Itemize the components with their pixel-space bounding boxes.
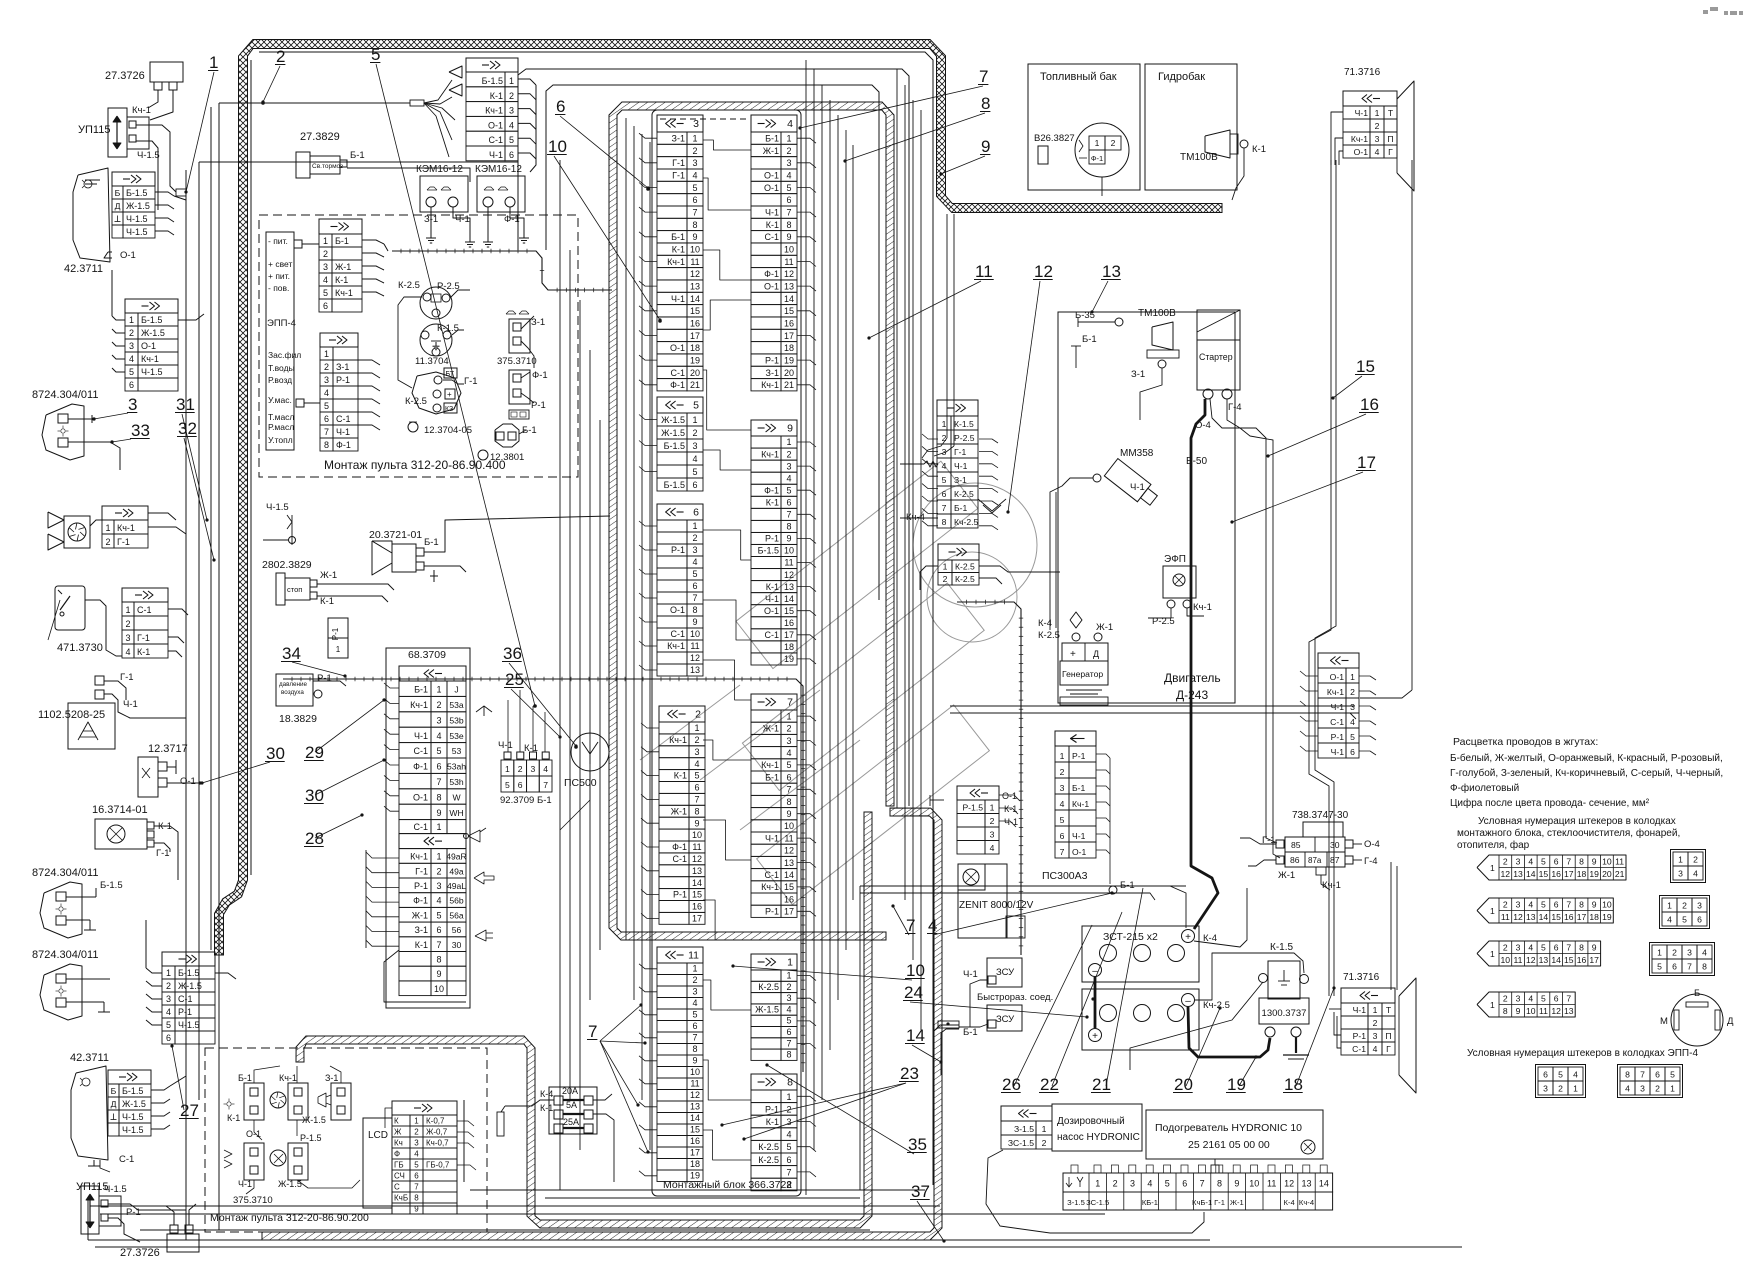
svg-text:К-1: К-1 [766, 1117, 779, 1127]
svg-text:Г: Г [1388, 147, 1393, 157]
svg-text:1: 1 [209, 53, 218, 72]
svg-text:Б-1: Б-1 [1072, 783, 1086, 793]
svg-text:6: 6 [436, 925, 441, 935]
svg-text:–: – [1185, 996, 1191, 1007]
svg-text:4: 4 [692, 557, 697, 567]
svg-text:6: 6 [509, 150, 514, 160]
svg-text:Ф-1: Ф-1 [336, 440, 351, 450]
svg-text:2: 2 [692, 975, 697, 985]
svg-text:6: 6 [1543, 1070, 1548, 1080]
svg-text:Ч-1.5: Ч-1.5 [266, 502, 289, 513]
svg-text:4: 4 [928, 916, 937, 935]
svg-text:8: 8 [436, 792, 441, 802]
svg-text:10: 10 [434, 984, 444, 994]
svg-text:3: 3 [531, 764, 536, 774]
svg-text:23: 23 [900, 1064, 919, 1083]
svg-text:Ф-1: Ф-1 [413, 896, 428, 906]
svg-text:Ж-1: Ж-1 [320, 570, 337, 581]
svg-text:насос HYDRONIC: насос HYDRONIC [1057, 1132, 1140, 1143]
svg-text:Р.масл: Р.масл [268, 422, 294, 432]
svg-text:10: 10 [690, 245, 700, 255]
svg-text:18: 18 [784, 642, 794, 652]
svg-text:10: 10 [1602, 856, 1612, 866]
svg-text:Ф-1: Ф-1 [532, 370, 548, 381]
svg-text:3: 3 [786, 736, 791, 746]
svg-text:3: 3 [786, 1117, 791, 1127]
svg-text:+: + [1092, 1031, 1098, 1042]
svg-text:КЭМ16-12: КЭМ16-12 [475, 164, 522, 175]
svg-text:Г-4: Г-4 [1228, 402, 1242, 413]
svg-text:6: 6 [786, 1155, 791, 1165]
svg-text:Б-1: Б-1 [954, 503, 968, 513]
svg-text:О-1: О-1 [764, 282, 779, 292]
svg-text:6: 6 [414, 1172, 419, 1181]
svg-text:УП115: УП115 [78, 124, 110, 136]
svg-text:2: 2 [414, 1128, 419, 1137]
svg-text:7: 7 [1687, 962, 1692, 972]
svg-text:2: 2 [1503, 942, 1508, 952]
svg-text:2: 2 [276, 47, 285, 66]
svg-text:ZENIT 8000/12V: ZENIT 8000/12V [959, 900, 1034, 911]
svg-text:49aL: 49aL [447, 881, 466, 891]
svg-text:7: 7 [1566, 942, 1571, 952]
svg-text:5: 5 [509, 135, 514, 145]
svg-text:1: 1 [125, 605, 130, 615]
svg-text:11: 11 [1539, 1006, 1548, 1016]
svg-text:3: 3 [1516, 993, 1521, 1003]
svg-text:42.3711: 42.3711 [64, 263, 103, 275]
svg-text:1: 1 [414, 1117, 419, 1126]
svg-text:5: 5 [1682, 915, 1687, 925]
svg-text:К-1: К-1 [227, 1113, 240, 1123]
svg-text:Ф-1: Ф-1 [504, 214, 520, 225]
svg-text:27.3829: 27.3829 [300, 131, 340, 143]
svg-text:Кч-1: Кч-1 [117, 523, 135, 533]
svg-text:1: 1 [942, 419, 947, 429]
svg-text:ГБ: ГБ [394, 1161, 404, 1170]
svg-text:8: 8 [1702, 962, 1707, 972]
svg-text:1: 1 [694, 723, 699, 733]
svg-text:1: 1 [692, 415, 697, 425]
svg-text:Г-голубой, З-зеленый, Кч-корич: Г-голубой, З-зеленый, Кч-коричневый, С-с… [1450, 767, 1723, 779]
svg-text:К-1: К-1 [540, 1103, 553, 1113]
svg-text:К-1: К-1 [1252, 144, 1266, 155]
svg-text:Ф-1: Ф-1 [672, 842, 687, 852]
svg-text:11: 11 [692, 842, 701, 852]
svg-text:2: 2 [1503, 899, 1508, 909]
svg-text:25А: 25А [563, 1117, 579, 1127]
svg-text:6: 6 [556, 97, 565, 116]
svg-text:5: 5 [1350, 732, 1355, 742]
svg-text:4: 4 [1528, 899, 1533, 909]
svg-text:Ж-1.5: Ж-1.5 [661, 415, 685, 425]
svg-text:Б-50: Б-50 [1186, 456, 1207, 467]
svg-text:2: 2 [990, 816, 995, 826]
svg-text:12: 12 [1284, 1179, 1294, 1189]
svg-text:5: 5 [693, 400, 699, 412]
svg-text:738.3747-30: 738.3747-30 [1292, 810, 1349, 821]
svg-text:Кч-1: Кч-1 [669, 735, 687, 745]
svg-text:16.3714-01: 16.3714-01 [92, 804, 148, 816]
svg-text:ПС500: ПС500 [564, 777, 597, 789]
svg-text:5: 5 [505, 780, 510, 790]
svg-text:ЗСУ: ЗСУ [996, 1014, 1015, 1025]
svg-text:2: 2 [695, 709, 701, 721]
svg-text:Кч-1: Кч-1 [279, 1073, 297, 1083]
svg-text:4: 4 [1528, 856, 1533, 866]
svg-text:13: 13 [1513, 869, 1523, 879]
svg-text:6: 6 [1350, 747, 1355, 757]
svg-text:ЗСУ: ЗСУ [996, 967, 1015, 978]
svg-text:13: 13 [784, 858, 794, 868]
svg-text:17: 17 [1577, 912, 1587, 922]
svg-text:4: 4 [1667, 915, 1672, 925]
svg-text:О-1: О-1 [764, 183, 779, 193]
svg-text:2: 2 [942, 433, 947, 443]
svg-text:5: 5 [1670, 1070, 1675, 1080]
svg-text:Монтажный блок 366.3722: Монтажный блок 366.3722 [663, 1179, 792, 1191]
svg-text:Т: Т [1388, 108, 1394, 118]
svg-text:42.3711: 42.3711 [70, 1052, 109, 1064]
svg-text:Г-1: Г-1 [672, 158, 685, 168]
svg-text:30: 30 [1330, 840, 1340, 850]
svg-text:12.3717: 12.3717 [148, 743, 188, 755]
svg-text:9: 9 [692, 617, 697, 627]
svg-text:33: 33 [131, 421, 150, 440]
svg-text:8: 8 [1625, 1070, 1630, 1080]
svg-text:Ж-0,7: Ж-0,7 [426, 1128, 448, 1137]
svg-text:О-1: О-1 [246, 1129, 261, 1139]
svg-text:6: 6 [942, 489, 947, 499]
svg-text:27.3726: 27.3726 [120, 1247, 160, 1256]
svg-text:18: 18 [784, 343, 794, 353]
svg-text:2802.3829: 2802.3829 [262, 559, 312, 571]
svg-text:Б-1: Б-1 [1120, 880, 1135, 891]
svg-text:В26.3827: В26.3827 [1034, 133, 1075, 144]
svg-text:+: + [447, 390, 452, 399]
svg-text:9: 9 [786, 534, 791, 544]
svg-text:36: 36 [503, 644, 522, 663]
svg-text:53b: 53b [449, 715, 464, 725]
svg-text:3: 3 [1543, 1084, 1548, 1094]
svg-text:4: 4 [414, 1150, 419, 1159]
svg-text:92.3709 Б-1: 92.3709 Б-1 [500, 795, 552, 806]
svg-text:6: 6 [786, 195, 791, 205]
svg-text:Г: Г [1386, 1044, 1391, 1054]
svg-text:Гидробак: Гидробак [1158, 71, 1205, 83]
svg-text:7: 7 [588, 1022, 597, 1041]
svg-text:5: 5 [1060, 815, 1065, 825]
svg-text:5: 5 [1541, 856, 1546, 866]
svg-text:5: 5 [942, 475, 947, 485]
svg-text:С-1: С-1 [764, 870, 779, 880]
svg-text:К-1: К-1 [335, 275, 348, 285]
svg-text:Б-1.5: Б-1.5 [482, 76, 503, 86]
svg-text:19: 19 [1589, 869, 1599, 879]
svg-text:87а: 87а [1308, 856, 1322, 865]
svg-text:1: 1 [1667, 901, 1672, 911]
svg-text:2: 2 [692, 533, 697, 543]
svg-text:Р-1: Р-1 [331, 627, 340, 640]
svg-text:7: 7 [1566, 899, 1571, 909]
svg-text:18.3829: 18.3829 [279, 713, 317, 725]
svg-text:К-2.5: К-2.5 [398, 280, 420, 291]
svg-text:Дозировочный: Дозировочный [1057, 1116, 1125, 1127]
svg-text:9: 9 [692, 1056, 697, 1066]
svg-text:1: 1 [105, 523, 110, 533]
svg-text:15: 15 [1564, 955, 1574, 965]
svg-text:3: 3 [1516, 899, 1521, 909]
svg-text:Ж-1: Ж-1 [763, 146, 779, 156]
svg-text:Р-1: Р-1 [1353, 1031, 1367, 1041]
svg-text:Ч-1: Ч-1 [414, 731, 428, 741]
svg-text:Стартер: Стартер [1199, 352, 1233, 362]
svg-text:10: 10 [548, 137, 567, 156]
svg-text:20: 20 [784, 368, 794, 378]
svg-text:6: 6 [692, 195, 697, 205]
svg-text:1: 1 [1490, 1000, 1495, 1010]
svg-text:6: 6 [436, 762, 441, 772]
svg-text:Расцветка проводов в жгутах:: Расцветка проводов в жгутах: [1453, 736, 1598, 748]
svg-text:Кч: Кч [394, 1139, 403, 1148]
svg-text:6: 6 [1554, 993, 1559, 1003]
svg-text:13: 13 [1526, 912, 1536, 922]
svg-text:4: 4 [990, 843, 995, 853]
svg-text:Б: Б [115, 188, 121, 198]
svg-text:11: 11 [784, 833, 793, 843]
svg-text:2: 2 [436, 866, 441, 876]
svg-text:Р-1: Р-1 [414, 881, 428, 891]
svg-text:30: 30 [266, 744, 285, 763]
svg-text:19: 19 [1227, 1075, 1246, 1094]
svg-text:К-1: К-1 [1004, 804, 1017, 814]
svg-text:20А: 20А [562, 1086, 578, 1096]
svg-text:3: 3 [786, 993, 791, 1003]
svg-text:8724.304/011: 8724.304/011 [32, 389, 98, 401]
svg-text:8: 8 [786, 797, 791, 807]
svg-text:Б: Б [1694, 988, 1700, 999]
svg-text:10: 10 [784, 245, 794, 255]
svg-text:6: 6 [1554, 856, 1559, 866]
svg-text:Б-белый, Ж-желтый, О-оранжевый: Б-белый, Ж-желтый, О-оранжевый, К-красны… [1450, 752, 1723, 764]
svg-text:КЗ: КЗ [445, 406, 453, 413]
svg-text:2: 2 [1655, 1084, 1660, 1094]
svg-text:6: 6 [786, 772, 791, 782]
svg-text:1: 1 [436, 852, 441, 862]
svg-text:6: 6 [692, 1021, 697, 1031]
svg-text:К-2.5: К-2.5 [758, 1155, 779, 1165]
svg-text:Генератор: Генератор [1062, 669, 1103, 679]
svg-text:4: 4 [1060, 799, 1065, 809]
svg-text:6: 6 [693, 507, 699, 519]
svg-text:9: 9 [1592, 856, 1597, 866]
svg-text:3: 3 [1130, 1179, 1135, 1189]
svg-text:1: 1 [1490, 906, 1495, 916]
svg-text:56b: 56b [449, 896, 464, 906]
svg-text:2: 2 [509, 91, 514, 101]
svg-text:+: + [1070, 649, 1076, 660]
svg-text:5: 5 [1165, 1179, 1170, 1189]
svg-text:24: 24 [904, 983, 923, 1002]
svg-text:4: 4 [125, 647, 130, 657]
svg-text:6: 6 [692, 480, 697, 490]
svg-text:14: 14 [1526, 869, 1536, 879]
svg-text:Кч-1: Кч-1 [485, 106, 503, 116]
svg-text:13: 13 [1301, 1179, 1311, 1189]
svg-text:8724.304/011: 8724.304/011 [32, 949, 98, 961]
svg-text:9: 9 [786, 809, 791, 819]
svg-text:Р-1: Р-1 [673, 890, 687, 900]
svg-text:19: 19 [784, 654, 794, 664]
svg-text:4: 4 [1147, 1179, 1152, 1189]
svg-text:3: 3 [693, 118, 699, 130]
svg-text:30: 30 [452, 940, 462, 950]
svg-text:Б: Б [111, 1086, 117, 1096]
svg-text:К-1: К-1 [766, 582, 779, 592]
svg-text:О-1: О-1 [413, 792, 428, 802]
svg-text:3: 3 [436, 881, 441, 891]
svg-text:Ж-1.5: Ж-1.5 [661, 428, 685, 438]
svg-text:О-1: О-1 [1354, 147, 1369, 157]
svg-text:Б-1.5: Б-1.5 [141, 315, 162, 325]
svg-text:12.3801: 12.3801 [490, 452, 524, 463]
svg-text:5: 5 [786, 1142, 791, 1152]
svg-text:Б-1: Б-1 [335, 236, 349, 246]
svg-text:53ah: 53ah [447, 762, 466, 772]
svg-text:Б-1: Б-1 [424, 537, 439, 548]
svg-text:8724.304/011: 8724.304/011 [32, 867, 98, 879]
svg-text:Ф-1: Ф-1 [413, 762, 428, 772]
svg-text:11: 11 [1615, 856, 1624, 866]
svg-text:Ч-1: Ч-1 [1130, 482, 1145, 493]
svg-text:С-1: С-1 [672, 854, 687, 864]
svg-text:19: 19 [1602, 912, 1612, 922]
svg-text:Ф-1: Ф-1 [764, 269, 779, 279]
svg-text:18: 18 [1589, 912, 1599, 922]
svg-text:Кч-0,7: Кч-0,7 [426, 1139, 449, 1148]
svg-text:9: 9 [436, 808, 441, 818]
svg-text:2: 2 [1558, 1084, 1563, 1094]
svg-text:Б-1: Б-1 [765, 134, 779, 144]
svg-text:53h: 53h [449, 777, 464, 787]
svg-text:12: 12 [690, 269, 700, 279]
svg-text:10: 10 [1526, 1006, 1536, 1016]
svg-text:3: 3 [324, 375, 329, 385]
svg-text:5: 5 [786, 760, 791, 770]
svg-text:9: 9 [1234, 1179, 1239, 1189]
svg-text:11: 11 [690, 1079, 699, 1089]
svg-text:1: 1 [1657, 948, 1662, 958]
svg-text:Кч-1: Кч-1 [761, 380, 779, 390]
svg-text:12: 12 [1551, 1006, 1561, 1016]
svg-text:З-1.5: З-1.5 [1067, 1198, 1085, 1207]
svg-text:1: 1 [692, 134, 697, 144]
svg-text:О-1: О-1 [670, 605, 685, 615]
svg-text:9: 9 [1516, 1006, 1521, 1016]
svg-text:7: 7 [1566, 993, 1571, 1003]
svg-text:Ч-1.5: Ч-1.5 [141, 367, 163, 377]
svg-text:Р-1: Р-1 [126, 1207, 141, 1218]
svg-text:Б-1: Б-1 [350, 150, 365, 161]
svg-text:4: 4 [323, 275, 328, 285]
svg-text:стоп: стоп [287, 585, 302, 594]
svg-text:Ч-1: Ч-1 [954, 461, 968, 471]
svg-text:К-4: К-4 [540, 1089, 553, 1099]
svg-text:С-1: С-1 [764, 630, 779, 640]
svg-text:ЗС-1.5: ЗС-1.5 [1008, 1138, 1034, 1148]
svg-text:Ч-1.5: Ч-1.5 [126, 227, 148, 237]
svg-text:4: 4 [692, 171, 697, 181]
svg-text:1: 1 [786, 971, 791, 981]
svg-text:6: 6 [786, 1027, 791, 1037]
svg-text:1: 1 [1042, 1124, 1047, 1134]
svg-text:4: 4 [786, 1004, 791, 1014]
svg-text:1: 1 [436, 685, 441, 695]
svg-text:37: 37 [911, 1182, 930, 1201]
svg-text:К-1.5: К-1.5 [1270, 942, 1293, 953]
svg-text:17: 17 [784, 630, 794, 640]
svg-text:13: 13 [1102, 262, 1121, 281]
svg-text:К-1: К-1 [137, 647, 150, 657]
svg-text:471.3730: 471.3730 [57, 642, 103, 654]
svg-text:2: 2 [436, 700, 441, 710]
svg-text:53: 53 [452, 746, 462, 756]
svg-text:4: 4 [1625, 1084, 1630, 1094]
svg-text:Р-2.5: Р-2.5 [437, 281, 460, 292]
svg-text:16: 16 [1564, 912, 1574, 922]
svg-text:15: 15 [690, 306, 700, 316]
svg-text:16: 16 [784, 319, 794, 329]
svg-text:Цифра после цвета провода- сеч: Цифра после цвета провода- сечение, мм² [1450, 797, 1650, 809]
svg-text:16: 16 [690, 1136, 700, 1146]
svg-text:ЗС-1.5: ЗС-1.5 [1086, 1198, 1109, 1207]
svg-text:19: 19 [690, 356, 700, 366]
svg-text:4: 4 [692, 454, 697, 464]
svg-text:10: 10 [1602, 899, 1612, 909]
svg-text:WH: WH [449, 808, 463, 818]
svg-text:7: 7 [436, 777, 441, 787]
svg-text:Р.возд: Р.возд [268, 375, 292, 385]
svg-text:+ пит.: + пит. [268, 271, 290, 281]
svg-text:Кч-1: Кч-1 [141, 354, 159, 364]
svg-text:6: 6 [1697, 915, 1702, 925]
svg-text:Кч-1: Кч-1 [761, 882, 779, 892]
svg-text:7: 7 [1566, 856, 1571, 866]
svg-text:8: 8 [414, 1194, 419, 1203]
svg-text:35: 35 [908, 1135, 927, 1154]
svg-text:Зас.фил: Зас.фил [268, 350, 301, 360]
svg-text:12: 12 [690, 653, 700, 663]
svg-text:3: 3 [692, 158, 697, 168]
svg-text:8: 8 [1217, 1179, 1222, 1189]
svg-text:6: 6 [692, 581, 697, 591]
svg-text:О-1: О-1 [1330, 672, 1345, 682]
svg-text:Р-1.5: Р-1.5 [300, 1133, 322, 1143]
svg-text:Св.тормоз: Св.тормоз [312, 163, 343, 170]
svg-text:3: 3 [1678, 869, 1683, 879]
svg-text:5: 5 [1541, 993, 1546, 1003]
svg-text:13: 13 [784, 582, 794, 592]
svg-text:Ж: Ж [394, 1128, 402, 1137]
svg-text:С: С [394, 1183, 400, 1192]
svg-text:16: 16 [1577, 955, 1587, 965]
svg-text:1: 1 [1490, 863, 1495, 873]
svg-text:13: 13 [1564, 1006, 1574, 1016]
svg-text:5: 5 [1558, 1070, 1563, 1080]
svg-text:7: 7 [786, 1167, 791, 1177]
svg-text:Г-1: Г-1 [117, 537, 130, 547]
svg-text:К-1: К-1 [766, 220, 779, 230]
